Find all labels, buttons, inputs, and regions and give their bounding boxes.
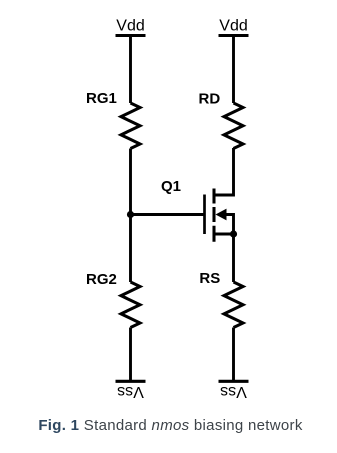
caption Fig. 1: [2, 417, 337, 434]
wire Vdd-left to RG1: [129, 36, 132, 104]
svg-text:Vss: Vss: [117, 383, 144, 400]
svg-text:Vss: Vss: [220, 383, 247, 400]
svg-text:RG1: RG1: [86, 90, 117, 107]
wire gate node to Q1 gate: [131, 213, 204, 216]
svg-text:RG2: RG2: [86, 271, 117, 288]
svg-text:RS: RS: [199, 270, 220, 287]
transistor Q1 channel segments: [212, 189, 215, 242]
resistor RG1: [121, 103, 140, 149]
power symbol Vdd (right): [219, 34, 249, 37]
svg-text:Vdd: Vdd: [219, 18, 247, 35]
wire Vdd-right to RD: [232, 36, 235, 104]
svg-text:Vdd: Vdd: [116, 18, 144, 35]
power symbol Vss (right): [219, 380, 249, 383]
wire RS to Vss-right: [232, 328, 235, 382]
power symbol Vss (left): [116, 380, 146, 383]
transistor Q1 gate bar: [203, 195, 206, 235]
svg-text:RD: RD: [199, 91, 221, 108]
wire source to RS: [232, 234, 235, 282]
transistor Q1 body wire: [226, 215, 234, 235]
svg-text:Q1: Q1: [161, 178, 181, 195]
power symbol Vdd (left): [116, 34, 146, 37]
junction dot source-body node: [230, 230, 237, 237]
resistor RD: [224, 103, 243, 149]
transistor Q1 body arrow: [216, 209, 227, 221]
transistor Q1 source stub: [214, 233, 234, 236]
junction dot gate node: [127, 211, 134, 218]
wire RD to drain of Q1: [214, 148, 234, 195]
wire RG2 to Vss-left: [129, 328, 132, 382]
resistor RS: [224, 282, 243, 328]
wire RG1 to RG2 (through gate node): [129, 149, 132, 283]
resistor RG2: [121, 282, 140, 328]
